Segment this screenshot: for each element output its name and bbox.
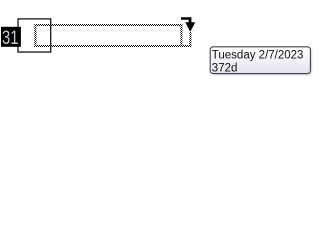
- tooltip box: [210, 47, 310, 74]
- tooltip shadow: [211, 48, 312, 75]
- link arrow (elbow, pointing down): [181, 17, 195, 32]
- date label box "31": [1, 26, 21, 49]
- marching-ants link drop edge: [189, 32, 191, 47]
- marching-ants top line: [34, 24, 182, 26]
- svg-text:372d: 372d: [212, 62, 238, 74]
- svg-text:Tuesday 2/7/2023: Tuesday 2/7/2023: [212, 50, 304, 62]
- marching-ants left edge: [34, 24, 36, 47]
- task bar outline rectangle: [18, 19, 51, 52]
- svg-text:31: 31: [2, 26, 18, 49]
- marching-ants bar right edge: [180, 24, 182, 47]
- marching-ants bottom line: [34, 45, 191, 47]
